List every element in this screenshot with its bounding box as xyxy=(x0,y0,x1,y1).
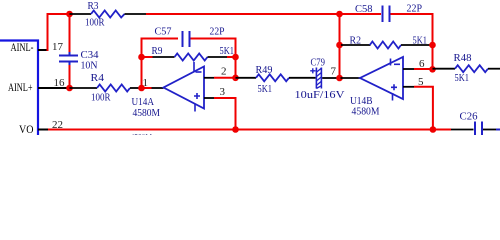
wire R9 left net stub xyxy=(142,56,153,58)
wire C57 loop left xyxy=(142,39,179,89)
node junction pin6 xyxy=(429,66,436,73)
pin 1 stub xyxy=(152,87,164,89)
svg-text:5K1: 5K1 xyxy=(220,45,235,57)
pin 5 stub xyxy=(403,86,414,88)
svg-text:C58: C58 xyxy=(355,3,373,15)
svg-text:R49: R49 xyxy=(256,64,273,76)
wire R9 right pin xyxy=(208,56,228,58)
wire pin5 down to VO net xyxy=(414,87,433,130)
node junction AINL+ xyxy=(66,85,73,92)
node junction top-left xyxy=(66,11,73,18)
svg-text:100R: 100R xyxy=(91,92,111,104)
wire node to pin1 xyxy=(142,87,152,89)
svg-text:22P: 22P xyxy=(407,3,423,15)
capacitor C26 xyxy=(475,122,482,136)
wire R2 right stub xyxy=(401,44,431,46)
wire C34 bottom riser xyxy=(69,65,71,88)
wire VO net xyxy=(48,129,451,131)
svg-text:5K1: 5K1 xyxy=(455,72,470,84)
svg-text:2: 2 xyxy=(221,66,227,78)
resistor R9 xyxy=(175,54,208,61)
capacitor C34 xyxy=(59,52,78,65)
svg-text:R3: R3 xyxy=(88,0,99,12)
pin 16 stub xyxy=(38,87,68,89)
svg-text:16: 16 xyxy=(54,77,66,89)
wire pin3 down to VO net xyxy=(214,98,236,130)
resistor R49 xyxy=(256,74,289,81)
svg-text:R48: R48 xyxy=(454,52,472,64)
svg-text:R4: R4 xyxy=(91,72,105,84)
node junction R9 left xyxy=(138,54,145,61)
svg-text:C57: C57 xyxy=(155,26,172,38)
capacitor C57 xyxy=(183,31,190,47)
wire pin2 to node xyxy=(214,77,236,79)
svg-text:AINL+: AINL+ xyxy=(8,82,33,94)
svg-text:C79: C79 xyxy=(311,57,326,69)
clipped component pin at right edge xyxy=(496,129,500,131)
wire R48 right stub xyxy=(488,68,500,70)
svg-text:100R: 100R xyxy=(85,17,105,29)
svg-text:4580M: 4580M xyxy=(133,107,161,119)
wire R3 left stub xyxy=(70,13,92,15)
wire C34 top riser xyxy=(69,14,71,52)
pin 3 stub xyxy=(204,97,214,99)
svg-text:R2: R2 xyxy=(350,35,362,47)
node junction VO pin5 xyxy=(430,126,437,133)
svg-text:4580M: 4580M xyxy=(131,132,153,135)
svg-text:R9: R9 xyxy=(152,45,163,57)
node junction top C58 xyxy=(336,11,343,18)
wire R49 left stub xyxy=(236,77,257,79)
wire R9 right net stub xyxy=(227,56,236,58)
pin 2 stub xyxy=(204,77,214,79)
node junction VO pin3 xyxy=(232,126,239,133)
capacitor C58 xyxy=(383,6,390,23)
svg-text:4580M: 4580M xyxy=(352,106,380,118)
pin 17 stub xyxy=(38,49,48,51)
svg-text:10N: 10N xyxy=(81,60,98,72)
op-amp U14B xyxy=(360,57,403,101)
wire R2 left stub xyxy=(341,44,371,46)
svg-text:C26: C26 xyxy=(460,111,478,123)
node junction R2 left xyxy=(336,42,343,49)
op-amp U14A xyxy=(164,62,205,112)
wire C57 loop right xyxy=(191,39,236,78)
svg-text:AINL-: AINL- xyxy=(11,42,34,54)
resistor R3 xyxy=(91,11,125,18)
wire pin17 riser to top net xyxy=(48,14,70,51)
svg-text:VO: VO xyxy=(19,124,34,135)
node junction U14A output xyxy=(138,85,145,92)
wire R3 right stub xyxy=(125,13,147,15)
wire C26 right stub xyxy=(483,129,496,131)
svg-text:5K1: 5K1 xyxy=(258,83,273,95)
resistor R4 xyxy=(97,85,130,92)
pin 22 stub xyxy=(38,129,48,131)
wire C26 left stub xyxy=(451,129,474,131)
svg-text:1: 1 xyxy=(143,77,149,89)
node junction R2 right xyxy=(429,42,436,49)
wire C58 right to corner xyxy=(391,14,433,69)
wire R4 right stub xyxy=(130,87,140,89)
wire R48 left stub xyxy=(433,68,456,70)
node junction U14B output xyxy=(336,75,343,82)
pin 7 stub xyxy=(341,77,361,79)
wire R49 right stub xyxy=(289,77,316,79)
wire top net to C58 xyxy=(146,13,340,15)
node junction pin2 xyxy=(232,75,239,82)
capacitor C79 polarized xyxy=(310,68,321,89)
IC part box left edge xyxy=(0,41,38,136)
svg-text:22P: 22P xyxy=(210,26,225,38)
resistor R2 xyxy=(370,42,401,49)
svg-text:7: 7 xyxy=(331,66,337,78)
wire C79 to node xyxy=(322,77,337,79)
node junction R9 right xyxy=(232,54,239,61)
wire pin6 to node xyxy=(414,68,433,70)
wire R9 left pin xyxy=(153,56,175,58)
resistor R48 xyxy=(455,65,488,72)
wire R4 left stub xyxy=(70,87,98,89)
svg-text:10uF/16V: 10uF/16V xyxy=(295,89,345,101)
svg-text:3: 3 xyxy=(220,86,226,98)
wire R2 left riser xyxy=(339,14,341,78)
wire to C58 left xyxy=(340,13,382,15)
svg-text:17: 17 xyxy=(52,41,64,53)
pin 6 stub xyxy=(403,68,414,70)
